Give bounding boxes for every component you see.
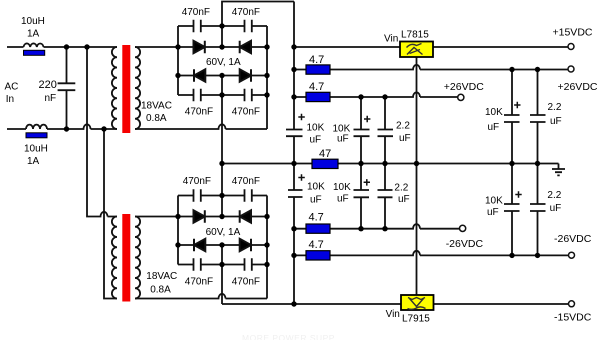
gnd column from L7815 to mid rail to L7915 — [416, 57, 418, 295]
bridge1 snubber cap row bottom: wires — [178, 94, 267, 96]
regulator U2 L7915 box — [401, 295, 434, 310]
raw plus bus vertical — [293, 2, 295, 305]
svg-text:470nF: 470nF — [232, 277, 260, 288]
diode D5 b2 row1 left (cathode right) — [194, 210, 205, 222]
svg-text:10K: 10K — [333, 182, 351, 193]
mid 0V rail — [222, 163, 559, 165]
bridge2 diode row1 wires — [178, 216, 267, 218]
svg-text:10uH: 10uH — [24, 144, 48, 155]
svg-text:60V, 1A: 60V, 1A — [206, 57, 241, 68]
terminal +26VDC left — [458, 94, 464, 100]
capacitor 470nF b1 top-right plates — [245, 20, 252, 32]
diode D4 b1 row2 right (cathode right) — [240, 69, 251, 81]
bridge1 diode row1 wires — [178, 46, 267, 48]
svg-text:220: 220 — [39, 79, 57, 91]
rail 4.7 R3 y228.7 with hop to -26VDC left terminal — [294, 224, 460, 229]
svg-text:10K: 10K — [485, 196, 503, 207]
svg-text:AC: AC — [5, 82, 19, 93]
diode D6 b2 row1 right (cathode left) — [240, 210, 251, 222]
svg-text:2.2: 2.2 — [396, 121, 410, 132]
svg-text:1A: 1A — [27, 29, 40, 40]
plus mark x361 top cap — [364, 116, 370, 123]
junction dots bridge2 — [175, 214, 180, 219]
junction dots rail R2 — [358, 94, 363, 99]
bridge2 center negative node down to raw minus rail — [221, 245, 223, 304]
bridge1 right column — [266, 26, 268, 129]
bridge2 snubber cap row bottom: wires — [178, 264, 267, 266]
rail L7815 output to +15VDC terminal — [433, 46, 569, 48]
svg-text:10K: 10K — [485, 107, 503, 118]
wire from AC bottom down to T2 primary bottom — [104, 129, 117, 299]
plus mark bus bottom cap — [298, 174, 305, 181]
junction dots rail R1 — [509, 67, 514, 72]
capacitor 470nF b1 bottom-left plates — [194, 89, 201, 101]
rail 4.7 R4 y255.4 with hop — [294, 251, 569, 256]
regulator U1 icon — [407, 44, 423, 55]
wire AC bottom line with hop at x=87 — [7, 124, 117, 129]
capacitor C 10KuF on bus bottom half: plates — [288, 190, 303, 197]
svg-text:0.8A: 0.8A — [146, 113, 167, 124]
svg-text:2.2: 2.2 — [548, 102, 562, 113]
svg-text:470nF: 470nF — [232, 107, 260, 118]
capacitor C 2.2uF column x385 bottom: leads and plates — [378, 164, 393, 229]
svg-text:uF: uF — [310, 195, 322, 206]
svg-text:470nF: 470nF — [232, 176, 260, 187]
svg-text:uF: uF — [550, 116, 562, 127]
transformer T1 secondary coil — [135, 47, 140, 129]
capacitor C 10KuF column x512 top: leads and plates — [504, 70, 520, 164]
plus mark x361 bottom cap — [364, 179, 370, 186]
svg-text:uF: uF — [310, 135, 322, 146]
inductor L1 blue bar — [24, 50, 45, 55]
junction dots mid rail — [219, 161, 224, 166]
capacitor C 10KuF column x361 top: leads and plates — [354, 97, 370, 164]
terminal -26VDC left — [460, 225, 466, 231]
junction dots rail R3 — [358, 226, 363, 231]
regulator U1 L7815 box — [400, 42, 433, 58]
svg-text:+26VDC: +26VDC — [558, 81, 598, 93]
wire T2 secondary bottom to bridge2 right column, hop at x=222 — [135, 294, 267, 299]
terminal -15VDC — [569, 301, 575, 307]
svg-text:4.7: 4.7 — [309, 239, 324, 251]
resistor R1 4.7 body — [306, 65, 330, 74]
svg-text:Vin: Vin — [384, 34, 398, 45]
svg-text:+26VDC: +26VDC — [444, 81, 484, 93]
svg-text:10uH: 10uH — [21, 16, 45, 27]
transformer T1 primary coil — [112, 47, 117, 129]
svg-text:nF: nF — [45, 93, 57, 104]
svg-text:uF: uF — [550, 203, 562, 214]
rail 4.7 R2 y97 with hop over gnd column to +26VDC left terminal — [294, 92, 458, 97]
svg-text:4.7: 4.7 — [309, 54, 324, 66]
resistor R5 47 body — [312, 159, 338, 168]
svg-text:-26VDC: -26VDC — [554, 233, 592, 245]
capacitor 220nF leads and plates — [58, 47, 76, 129]
capacitor C 10KuF column x361 bottom: leads and plates — [354, 164, 370, 229]
raw minus rail to L7915 and -15VDC terminal — [222, 303, 569, 305]
svg-text:18VAC: 18VAC — [146, 271, 177, 282]
transformer T2 secondary coil — [135, 217, 140, 299]
svg-text:4.7: 4.7 — [309, 212, 324, 224]
svg-text:uF: uF — [337, 134, 349, 145]
svg-text:Vin: Vin — [386, 309, 400, 320]
bridge2 diode row2 wires — [178, 244, 267, 246]
svg-text:47: 47 — [319, 148, 331, 160]
terminal -26VDC right — [569, 252, 575, 258]
svg-text:470nF: 470nF — [232, 7, 260, 18]
svg-text:0.8A: 0.8A — [150, 285, 171, 296]
inductor L1 coil 10uH top — [24, 43, 44, 47]
bridge1 center positive node up to top jumper to bus — [222, 2, 294, 48]
svg-text:18VAC: 18VAC — [141, 101, 172, 112]
bridge2 snubber cap row top: wires — [178, 195, 267, 197]
svg-text:uF: uF — [398, 194, 410, 205]
rail 4.7 R1 y69.5 with hop over gnd column — [294, 65, 569, 70]
diode D3 b1 row2 left (cathode left) — [194, 69, 205, 81]
svg-text:uF: uF — [488, 122, 500, 133]
transformer T1 core bar — [122, 45, 130, 133]
resistor R4 4.7 body — [306, 251, 330, 260]
resistor R2 4.7 body — [306, 92, 330, 101]
terminal +15VDC — [568, 44, 574, 50]
capacitor C 2.2uF column x385 top: leads and plates — [378, 97, 394, 164]
plus mark x512 bottom cap — [515, 191, 521, 198]
plus mark bus top cap — [298, 114, 305, 121]
rail to L7815 Vin — [294, 46, 400, 48]
diode D2 b1 row1 right (cathode left) — [240, 41, 251, 53]
svg-text:60V, 1A: 60V, 1A — [206, 227, 241, 238]
ground symbol — [552, 164, 565, 176]
inductor L2 blue bar — [26, 133, 47, 138]
diode D7 b2 row2 left (cathode left) — [194, 239, 205, 251]
svg-text:470nF: 470nF — [185, 277, 213, 288]
plus mark x512 top cap — [514, 102, 520, 109]
capacitor C 10KuF column x512 bottom: leads and plates — [504, 164, 520, 256]
bridge1 snubber cap row top: wires — [178, 25, 267, 27]
bridge1 diode row2 wires — [178, 75, 267, 77]
svg-text:10K: 10K — [307, 122, 325, 133]
transformer T2 primary coil — [112, 217, 117, 299]
bridge2 right column — [266, 196, 268, 299]
svg-text:1A: 1A — [27, 156, 40, 167]
capacitor 470nF b1 bottom-right plates — [245, 89, 252, 101]
bridge1 left column — [177, 26, 179, 95]
junction dots bridge1 — [175, 44, 180, 49]
bridge2 left column — [177, 196, 179, 265]
capacitor 470nF b2 top-right plates — [245, 189, 252, 201]
junction dots AC lines — [64, 44, 69, 49]
capacitor 470nF b2 bottom-right plates — [245, 258, 252, 270]
svg-text:MORE POWER SUPP: MORE POWER SUPP — [242, 333, 335, 340]
diode D1 b1 row1 left (cathode right) — [194, 41, 205, 53]
svg-text:uF: uF — [337, 194, 349, 205]
svg-text:In: In — [6, 94, 14, 105]
svg-text:470nF: 470nF — [185, 107, 213, 118]
capacitor C 2.2uF column x537.5 bottom: leads and plates — [530, 164, 546, 256]
junction dots rail R4 — [509, 253, 514, 258]
capacitor C 2.2uF column x537.5 top: leads and plates — [530, 70, 546, 164]
wire T1 secondary top to bridge1 — [135, 46, 178, 48]
svg-text:2.2: 2.2 — [394, 183, 408, 194]
terminal +26VDC right — [568, 66, 574, 72]
svg-text:470nF: 470nF — [183, 176, 211, 187]
capacitor 470nF b1 top-left plates — [194, 20, 201, 32]
svg-text:+15VDC: +15VDC — [553, 27, 593, 39]
bridge1 center negative node down to mid rail — [221, 76, 223, 164]
svg-text:470nF: 470nF — [182, 7, 210, 18]
regulator U2 icon — [408, 298, 426, 310]
svg-text:10K: 10K — [307, 182, 325, 193]
svg-text:L7815: L7815 — [401, 30, 429, 41]
bridge2 center positive node up to mid rail — [221, 164, 223, 217]
capacitor 470nF b2 top-left plates — [194, 189, 201, 201]
svg-text:-15VDC: -15VDC — [554, 312, 592, 324]
svg-text:2.2: 2.2 — [547, 190, 561, 201]
wire T2 secondary top to bridge2 — [135, 216, 178, 218]
wire T1 secondary bottom to bridge1 right column, hop at x=222 — [135, 124, 267, 129]
svg-text:uF: uF — [487, 207, 499, 218]
svg-text:-26VDC: -26VDC — [446, 238, 484, 250]
capacitor C 10KuF on bus top half: plates — [286, 130, 303, 137]
wire from AC top down to T2 primary top, hop at x=104 — [87, 47, 117, 217]
junction dots raw plus bus — [291, 44, 296, 49]
capacitor 470nF b2 bottom-left plates — [194, 258, 201, 270]
inductor L2 coil 10uH bottom — [26, 125, 47, 129]
wire AC top line — [7, 46, 117, 48]
svg-text:4.7: 4.7 — [309, 81, 324, 93]
resistor R3 4.7 body — [306, 224, 330, 233]
transformer T2 core bar — [122, 214, 130, 302]
svg-text:L7915: L7915 — [402, 314, 430, 325]
diode D8 b2 row2 right (cathode right) — [240, 239, 251, 251]
svg-text:uF: uF — [399, 133, 411, 144]
